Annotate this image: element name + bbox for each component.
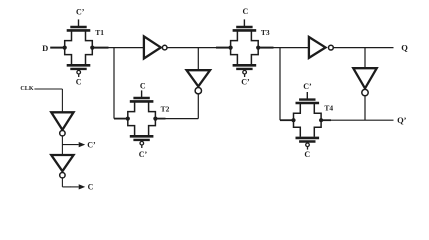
svg-text:C’: C’	[87, 141, 96, 150]
svg-text:C: C	[88, 182, 94, 191]
svg-text:C’: C’	[241, 78, 250, 87]
svg-text:C: C	[304, 150, 310, 159]
svg-text:T4: T4	[324, 104, 333, 113]
svg-text:T3: T3	[261, 28, 270, 37]
svg-text:Q: Q	[401, 42, 408, 52]
svg-text:T2: T2	[161, 105, 170, 114]
svg-text:T1: T1	[95, 28, 104, 37]
svg-text:C’: C’	[139, 150, 148, 159]
svg-text:C: C	[140, 81, 146, 90]
svg-text:C’: C’	[303, 82, 312, 91]
svg-text:CLK: CLK	[20, 86, 34, 92]
svg-text:C: C	[243, 7, 249, 16]
svg-text:C’: C’	[76, 8, 85, 17]
svg-text:C: C	[76, 78, 82, 87]
svg-text:Q’: Q’	[397, 115, 407, 125]
svg-text:D: D	[42, 43, 48, 53]
